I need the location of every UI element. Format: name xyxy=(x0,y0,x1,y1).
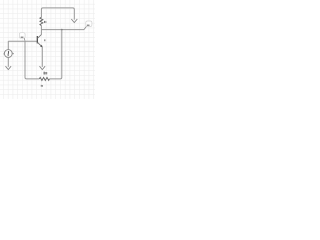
arrow: source ground arrow xyxy=(6,66,12,69)
wire: source top lead xyxy=(7,41,9,49)
label source plus mark xyxy=(13,53,14,54)
transistor Q1 (NPN) xyxy=(37,35,42,48)
resistor R1 (vertical zigzag) xyxy=(40,17,43,25)
node a balloon (on base wire) xyxy=(19,33,25,41)
wire: collector rail to node b xyxy=(41,29,84,31)
wire: collector lead from R1 bottom into transistor xyxy=(40,26,42,35)
label R2 value xyxy=(41,85,43,87)
node b balloon (end of collector rail) xyxy=(84,21,92,30)
label R1 value xyxy=(44,21,47,23)
wire: emitter lead down xyxy=(41,47,43,67)
grid background xyxy=(0,0,95,99)
resistor R2 (horizontal zigzag) xyxy=(39,77,49,80)
wire: right vertical drop to bottom resistor xyxy=(49,30,62,79)
wire: base wire xyxy=(8,40,37,42)
arrow: top-right down arrow xyxy=(71,19,77,23)
wire: top rail from R1 top over to top-right drop xyxy=(41,8,74,20)
wire: source bottom lead xyxy=(7,57,9,67)
source V1 (circle with wave) xyxy=(4,50,12,58)
label source minus mark xyxy=(3,53,4,54)
arrow: emitter ground arrow xyxy=(40,66,46,69)
label R2 name xyxy=(44,72,48,75)
junction at collector rail and right drop xyxy=(61,29,63,31)
label Q1 xyxy=(44,39,45,41)
wire: branch from base node down to bottom resistor xyxy=(25,41,39,79)
